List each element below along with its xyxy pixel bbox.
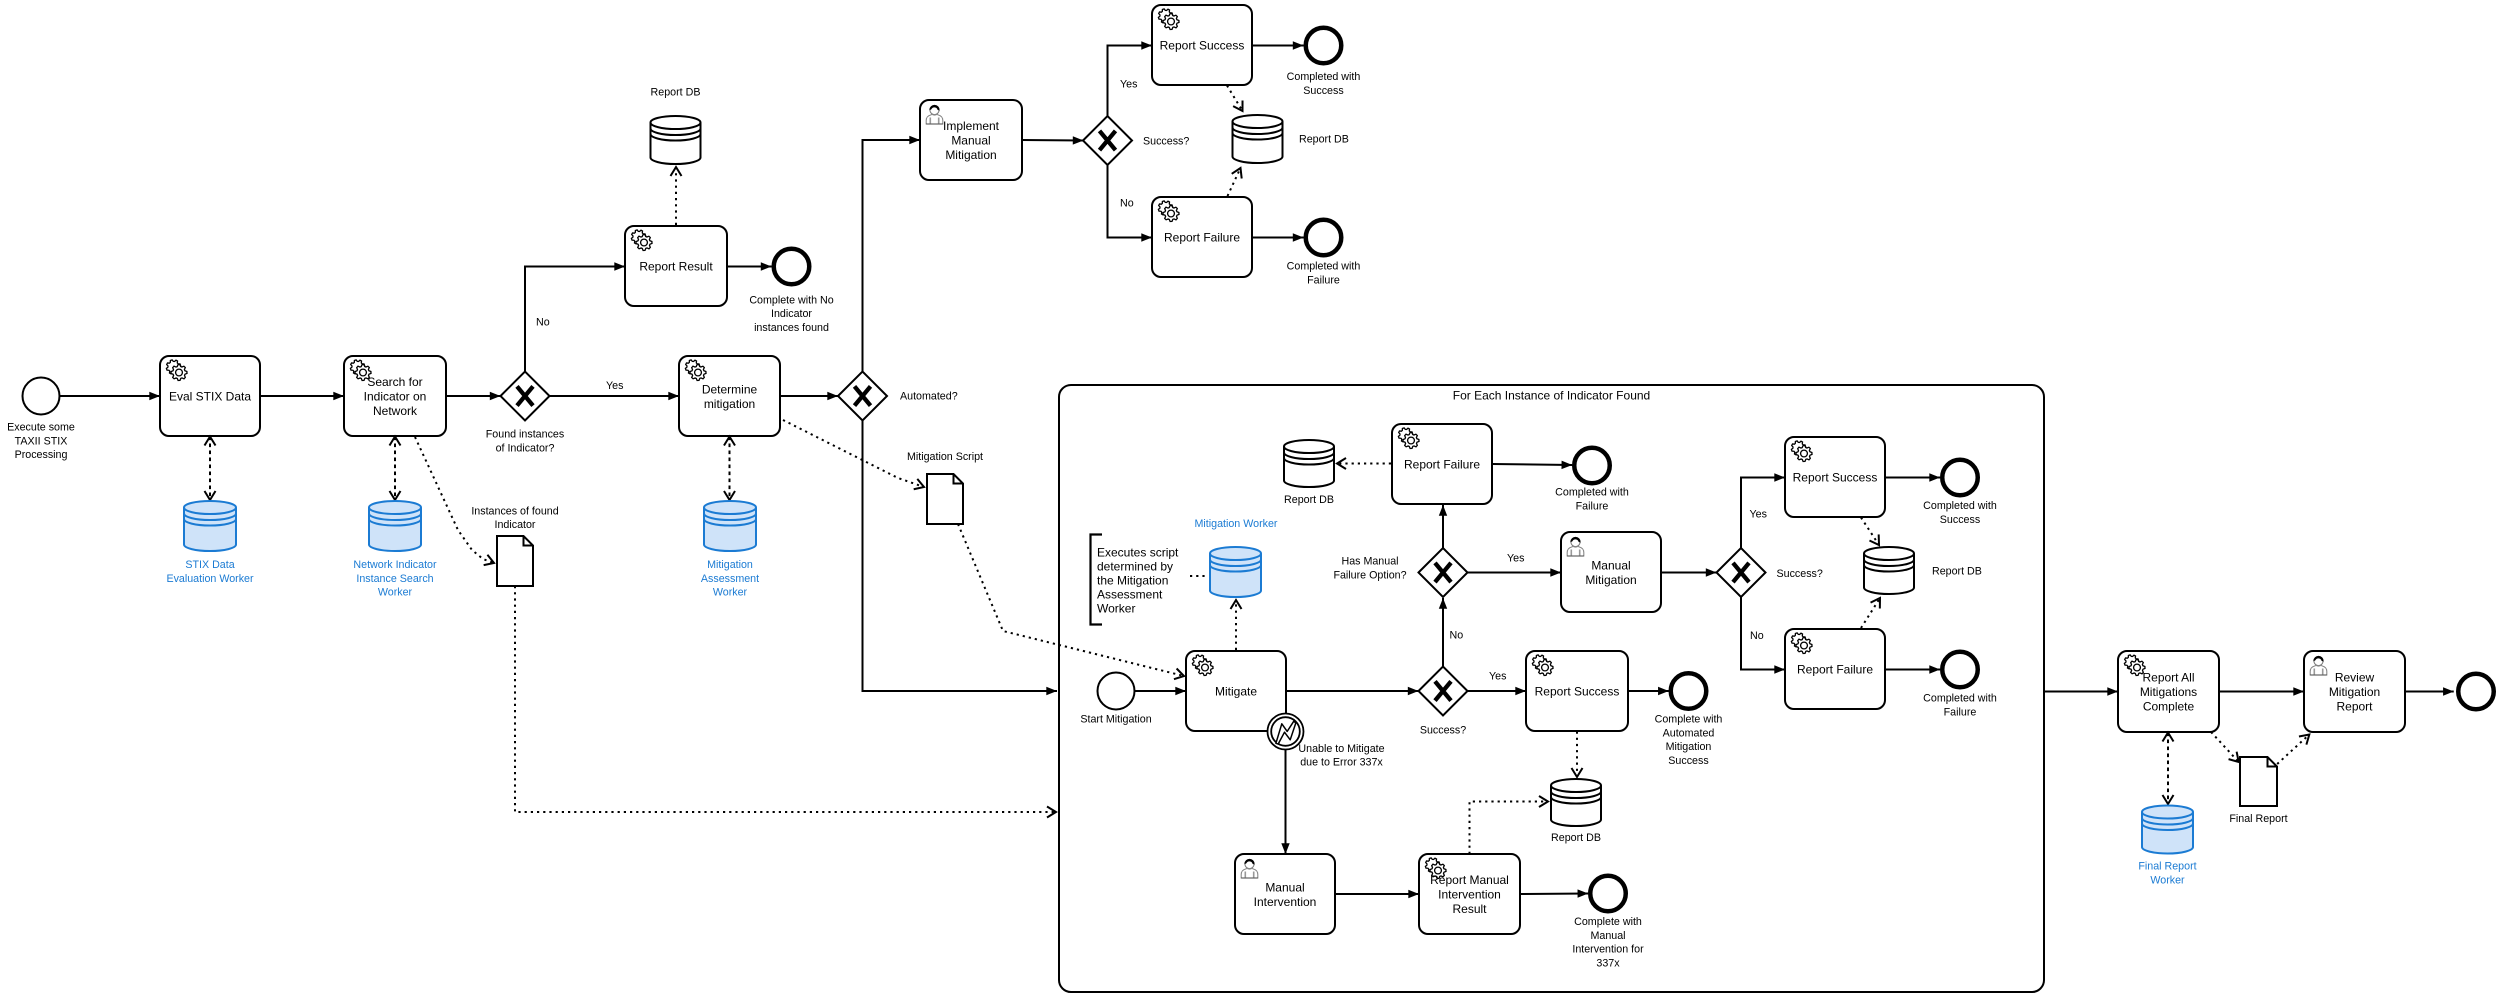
task Determine mitigation (679, 356, 780, 436)
datastore Mitigation Worker (1210, 547, 1261, 597)
label No label g3 (1120, 198, 1134, 210)
flow gateway1 Yes to Determine mitigation (550, 395, 680, 397)
end event Completed with Failure sub topleft (1574, 448, 1610, 484)
boundary error event on Mitigate (1268, 714, 1304, 750)
svg-text:Processing: Processing (15, 449, 68, 461)
svg-text:Evaluation Worker: Evaluation Worker (166, 573, 254, 585)
svg-text:Network: Network (373, 404, 418, 418)
svg-text:Success: Success (1668, 755, 1708, 767)
association Report Success left to Report DB 5 (1576, 732, 1578, 778)
svg-text:Completed with: Completed with (1555, 487, 1629, 499)
svg-text:Success?: Success? (1420, 725, 1466, 737)
flow Determine to gateway2 (780, 395, 838, 397)
association Eval-STIX worker (209, 437, 211, 501)
end event Completed with Success top (1306, 28, 1342, 64)
svg-text:determined by: determined by (1097, 560, 1173, 574)
svg-text:337x: 337x (1596, 957, 1620, 969)
label Yes label g6 (1750, 509, 1767, 521)
svg-text:the Mitigation: the Mitigation (1097, 574, 1168, 588)
label Mitigation Script label (907, 451, 983, 463)
svg-text:Has Manual: Has Manual (1341, 556, 1398, 568)
label Network worker label (353, 559, 437, 599)
label Success mid label (1420, 725, 1466, 737)
task Review Mitigation Report (2304, 651, 2405, 732)
flow Report Failure sub to end4 (1492, 464, 1572, 465)
datastore Report DB 5 (1551, 779, 1601, 826)
svg-text:Report DB: Report DB (1932, 566, 1982, 578)
label end2 label (1287, 71, 1361, 97)
datastore Report DB 1 (651, 116, 701, 164)
svg-text:Report Success: Report Success (1160, 39, 1245, 53)
task Implement Manual Mitigation (920, 100, 1022, 180)
label Automated label (900, 391, 958, 403)
datastore Report DB 2 (1233, 115, 1283, 163)
svg-text:Manual: Manual (1265, 880, 1304, 894)
gateway Automated? (838, 372, 887, 421)
svg-text:Result: Result (1452, 902, 1487, 916)
svg-text:Report DB: Report DB (1284, 494, 1334, 506)
end event Completed with Failure sub right (1942, 652, 1978, 688)
data object Mitigation Script (927, 474, 963, 524)
svg-text:Found instances: Found instances (486, 429, 564, 441)
svg-text:Report Failure: Report Failure (1164, 231, 1240, 245)
svg-text:Mitigate: Mitigate (1215, 685, 1257, 699)
label No label g1 (536, 317, 550, 329)
svg-text:Assessment: Assessment (701, 573, 759, 585)
label Mitigation Worker label (1195, 518, 1278, 530)
association Determine to Mitigation Script (783, 420, 924, 487)
svg-text:Worker: Worker (378, 587, 413, 599)
svg-text:Yes: Yes (1750, 509, 1767, 521)
task Report Success sub left (1526, 651, 1628, 731)
flow gateway6 Yes to Report Success right (1741, 478, 1785, 549)
svg-text:Report Failure: Report Failure (1797, 663, 1873, 677)
label Instances doc label (471, 505, 558, 531)
svg-text:Mitigation Worker: Mitigation Worker (1195, 518, 1278, 530)
svg-text:Success?: Success? (1777, 568, 1823, 580)
association Determine-Mitigation Assessment worker (729, 437, 731, 501)
task Manual Mitigation (1561, 532, 1661, 612)
subprocess For Each Instance of Indicator Found (1059, 385, 2044, 992)
svg-text:Mitigations: Mitigations (2140, 685, 2197, 699)
association Search to Instances doc (415, 437, 494, 563)
label Final Report label (2229, 813, 2287, 825)
task Report Failure sub topleft (1392, 424, 1492, 504)
flow Report Result to end1 (727, 266, 772, 268)
task Report Manual Intervention Result (1419, 854, 1520, 934)
svg-text:Worker: Worker (1097, 602, 1135, 616)
svg-text:Instances of found: Instances of found (471, 505, 558, 517)
task Report Success sub right (1785, 437, 1885, 517)
svg-text:Indicator on: Indicator on (364, 390, 427, 404)
svg-text:Assessment: Assessment (1097, 588, 1163, 602)
svg-text:Execute some: Execute some (7, 422, 75, 434)
svg-text:Final Report: Final Report (2229, 813, 2287, 825)
svg-text:Start Mitigation: Start Mitigation (1080, 714, 1151, 726)
datastore STIX Data Evaluation Worker (184, 501, 236, 551)
svg-text:Mitigation: Mitigation (2329, 685, 2380, 699)
svg-text:Report Success: Report Success (1535, 685, 1620, 699)
label Success top label (1143, 136, 1189, 148)
flow gateway5 No up to gateway4 (1442, 598, 1444, 667)
flow Report Failure right to end7 (1885, 669, 1940, 671)
datastore Network Indicator Instance Search Worker (369, 501, 421, 551)
label gateway1 label (486, 429, 564, 455)
svg-text:mitigation: mitigation (704, 397, 755, 411)
label unable label (1298, 743, 1384, 769)
association Report Failure to Report DB 2 (1228, 168, 1241, 196)
svg-text:Search for: Search for (367, 375, 422, 389)
end event Complete with Automated Mitigation Success (1671, 673, 1707, 709)
svg-text:Intervention: Intervention (1254, 895, 1317, 909)
svg-text:Eval STIX Data: Eval STIX Data (169, 390, 251, 404)
end event Complete with Manual Intervention for 337x (1590, 876, 1626, 912)
flow Implement to gateway3 (1022, 139, 1084, 142)
svg-text:Mitigation Script: Mitigation Script (907, 451, 983, 463)
svg-text:Success?: Success? (1143, 136, 1189, 148)
association Report Failure to Report DB 3 (1337, 463, 1391, 465)
association Report All to Final Report doc (2211, 732, 2239, 762)
svg-text:TAXII STIX: TAXII STIX (15, 435, 68, 447)
flow Eval to Search (260, 395, 344, 397)
svg-text:Yes: Yes (606, 380, 623, 392)
label Report DB 2 label (1299, 134, 1349, 146)
association Report Result to Report DB 1 (675, 167, 677, 225)
label Yes label g1 (606, 380, 623, 392)
label Report DB 3 label (1284, 494, 1334, 506)
svg-text:Success: Success (1940, 514, 1980, 526)
svg-text:Worker: Worker (2150, 874, 2185, 886)
svg-text:Report: Report (2336, 700, 2373, 714)
label Yes label g3 (1120, 79, 1137, 91)
svg-text:Complete with No: Complete with No (749, 294, 833, 306)
svg-text:Indicator: Indicator (495, 519, 536, 531)
flow Report All to Review (2219, 691, 2304, 693)
association Report Success to Report DB 2 (1227, 86, 1243, 112)
flow gateway5 Yes to Report Success left (1468, 690, 1527, 692)
flow start to Eval (60, 395, 161, 397)
svg-text:Implement: Implement (943, 119, 1000, 133)
svg-text:Report Result: Report Result (639, 260, 713, 274)
svg-text:Yes: Yes (1507, 553, 1524, 565)
label Yes label g4 (1507, 553, 1524, 565)
svg-text:Yes: Yes (1120, 79, 1137, 91)
svg-text:Review: Review (2335, 671, 2375, 685)
flow gateway4 Yes to Manual Mitigation (1468, 572, 1562, 574)
flow gateway3 No to Report Failure (1108, 165, 1153, 238)
flow Manual Intervention to Report Manual (1335, 893, 1419, 895)
svg-text:Manual: Manual (1590, 930, 1625, 942)
start event Execute some TAXII STIX Processing (23, 378, 60, 415)
svg-text:Failure Option?: Failure Option? (1333, 569, 1406, 581)
flow Report Failure to end3 (1252, 237, 1304, 239)
label Mitigation Assessment label (701, 559, 759, 599)
svg-text:No: No (1120, 198, 1134, 210)
svg-text:Report All: Report All (2142, 671, 2194, 685)
label start label (7, 422, 75, 462)
flow Report Manual to end8 (1520, 893, 1588, 896)
annotation text (1097, 546, 1179, 616)
svg-text:Instance Search: Instance Search (356, 573, 433, 585)
flow Report Success right to end6 (1885, 477, 1940, 479)
svg-text:Mitigation: Mitigation (945, 148, 996, 162)
svg-text:Manual: Manual (951, 134, 990, 148)
start event Start Mitigation (1098, 673, 1135, 710)
datastore Final Report Worker (2142, 806, 2193, 854)
label Yes label g5 (1489, 671, 1506, 683)
association annotation to Mitigation Worker (1190, 575, 1208, 577)
label end3 label (1287, 261, 1361, 287)
end event Complete with No Indicator instances found (774, 249, 810, 285)
association Report Manual to Report DB 5 (1470, 802, 1549, 855)
svg-text:Report DB: Report DB (1299, 134, 1349, 146)
flow boundary to Manual Intervention (1285, 750, 1287, 855)
svg-text:Success: Success (1303, 85, 1343, 97)
label Report DB 4 label (1932, 566, 1982, 578)
flow gateway2 up to Implement (863, 140, 921, 372)
svg-text:Mitigation: Mitigation (1666, 741, 1712, 753)
task Eval STIX Data (160, 356, 260, 436)
svg-text:Report Failure: Report Failure (1404, 458, 1480, 472)
svg-text:Failure: Failure (1307, 274, 1340, 286)
end event Completed with Success sub right (1942, 460, 1978, 496)
association Mitigate to Mitigation Worker (1235, 600, 1237, 650)
end event Completed with Failure top (1306, 220, 1342, 256)
svg-text:Executes script: Executes script (1097, 546, 1179, 560)
association Report Failure right to Report DB 4 (1861, 598, 1880, 628)
svg-text:Automated?: Automated? (900, 391, 958, 403)
association Mitigation Script to Mitigate (958, 524, 1184, 676)
flow gateway4 up to Report Failure sub (1442, 505, 1444, 548)
svg-text:instances found: instances found (754, 322, 829, 334)
task Report Failure sub right (1785, 629, 1885, 709)
svg-text:Yes: Yes (1489, 671, 1506, 683)
label end8 label (1572, 916, 1644, 969)
label end4 label (1555, 487, 1629, 513)
svg-text:Completed with: Completed with (1923, 500, 1997, 512)
svg-text:Report Manual: Report Manual (1430, 873, 1509, 887)
task Manual Intervention (1235, 854, 1335, 934)
svg-text:Final Report: Final Report (2138, 861, 2196, 873)
svg-text:Completed with: Completed with (1287, 71, 1361, 83)
flow startMit to Mitigate (1135, 690, 1187, 692)
datastore Mitigation Assessment Worker (704, 501, 756, 551)
label No label g6 (1750, 630, 1764, 642)
flow Mitigate to gateway5 (1286, 690, 1419, 692)
flow subprocess to Report All (2044, 691, 2118, 693)
svg-text:No: No (1750, 630, 1764, 642)
flow gateway2 down to subprocess (863, 421, 1058, 692)
svg-text:Determine: Determine (702, 382, 758, 396)
svg-text:Completed with: Completed with (1287, 261, 1361, 273)
svg-text:Manual: Manual (1591, 558, 1630, 572)
svg-text:Unable to Mitigate: Unable to Mitigate (1298, 743, 1384, 755)
task Mitigate (1186, 651, 1286, 731)
task Search for Indicator on Network (344, 356, 446, 436)
flow Report Success left to end5 (1628, 690, 1669, 692)
gateway Success? top (1083, 116, 1132, 165)
flow Review to final end (2405, 691, 2454, 693)
flow Manual Mitigation to gateway6 (1661, 572, 1717, 574)
data object Final Report (2240, 757, 2277, 806)
label end7 label (1923, 693, 1997, 719)
svg-text:For Each Instance of Indicator: For Each Instance of Indicator Found (1453, 389, 1650, 403)
flow Report Success to end2 (1252, 45, 1304, 47)
gateway Success? right (1717, 548, 1766, 597)
flow gateway1 No to Report Result (525, 267, 625, 372)
svg-text:Complete with: Complete with (1574, 916, 1642, 928)
svg-text:No: No (1450, 630, 1464, 642)
svg-text:Failure: Failure (1576, 501, 1609, 513)
label Report DB 5 label (1551, 832, 1601, 844)
svg-text:Intervention for: Intervention for (1572, 944, 1644, 956)
svg-text:Automated: Automated (1663, 727, 1715, 739)
svg-text:Indicator: Indicator (771, 308, 812, 320)
svg-text:No: No (536, 317, 550, 329)
svg-text:Worker: Worker (713, 587, 748, 599)
svg-text:Mitigation: Mitigation (707, 559, 753, 571)
gateway Has Manual Failure Option? (1419, 548, 1468, 597)
flow Search to gateway1 (446, 395, 501, 397)
label end5 label (1655, 714, 1723, 767)
svg-text:Failure: Failure (1944, 706, 1977, 718)
svg-text:Network Indicator: Network Indicator (353, 559, 437, 571)
svg-text:Report DB: Report DB (1551, 832, 1601, 844)
end event final end (2458, 674, 2494, 710)
svg-text:Complete: Complete (2143, 700, 2195, 714)
association Report All - Final Report Worker (2167, 733, 2169, 805)
svg-text:Complete with: Complete with (1655, 714, 1723, 726)
datastore Report DB 4 (1864, 547, 1914, 594)
label STIX worker label (166, 559, 254, 585)
svg-text:of Indicator?: of Indicator? (496, 442, 555, 454)
task Report Failure top (1152, 197, 1252, 277)
svg-text:Mitigation: Mitigation (1585, 573, 1636, 587)
label Final Report Worker label (2138, 861, 2196, 887)
label gateway4 label (1333, 556, 1406, 582)
flow gateway3 Yes to Report Success (1108, 46, 1153, 117)
data object Instances of found Indicator (497, 536, 533, 586)
label No label g5 (1450, 630, 1464, 642)
task Report Result (625, 226, 727, 306)
association Instances doc to subprocess (515, 586, 1056, 812)
association Final Report doc to Review (2277, 735, 2309, 765)
association Report Success right to Report DB 4 (1861, 518, 1879, 546)
gateway Success? mid (1419, 667, 1468, 716)
svg-text:due to Error 337x: due to Error 337x (1300, 757, 1383, 769)
label end6 label (1923, 500, 1997, 526)
task Report All Mitigations Complete (2118, 651, 2219, 732)
association Search-Network worker (394, 437, 396, 501)
text annotation Executes script (1091, 535, 1103, 625)
svg-text:STIX Data: STIX Data (185, 559, 234, 571)
label Success right label (1777, 568, 1823, 580)
svg-text:Intervention: Intervention (1438, 888, 1501, 902)
label end1 label (749, 294, 833, 334)
gateway Found instances of Indicator? (501, 372, 550, 421)
label Report DB 1 label (651, 87, 701, 99)
datastore Report DB 3 (1284, 440, 1334, 487)
label Start Mitigation label (1080, 714, 1151, 726)
flow gateway6 No to Report Failure right (1741, 597, 1785, 670)
svg-text:Completed with: Completed with (1923, 693, 1997, 705)
svg-text:Report Success: Report Success (1793, 471, 1878, 485)
svg-text:Report DB: Report DB (651, 87, 701, 99)
task Report Success top (1152, 5, 1252, 85)
